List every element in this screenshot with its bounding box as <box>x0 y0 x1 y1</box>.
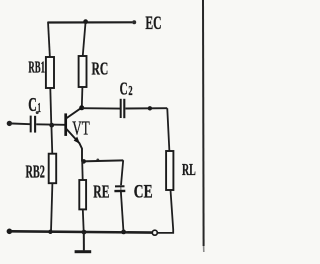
ground <box>75 250 92 253</box>
wire: input to C1 <box>12 123 30 126</box>
wire: top rail to RC <box>83 22 86 57</box>
svg-text:RE: RE <box>93 181 109 201</box>
junction RB2 / rail <box>48 230 52 234</box>
wire: RB2 to ground rail <box>51 183 52 231</box>
svg-text:CE: CE <box>134 181 153 202</box>
wire: emitter wire down to CE <box>121 160 123 185</box>
transistor VT base bar <box>64 113 67 135</box>
wire: output rail down to RL <box>167 108 169 151</box>
svg-text:RB1: RB1 <box>28 58 45 77</box>
junction collector node <box>79 105 84 110</box>
wire: top rail to RB1 <box>48 22 50 58</box>
terminal input ground circle <box>7 229 13 235</box>
resistor RE <box>79 180 86 209</box>
capacitor C1 <box>30 116 32 133</box>
wire: RB1 to base node <box>50 88 51 125</box>
junction top rail / RC <box>83 19 88 24</box>
junction RE-ground / rail <box>82 230 87 235</box>
terminal output circle <box>152 230 157 235</box>
terminal input <box>7 121 12 126</box>
page border right <box>202 0 205 246</box>
svg-text:C: C <box>120 78 128 98</box>
wire: emitter node to RE <box>81 162 84 181</box>
wire: C1 to base <box>36 123 65 126</box>
wire: base node to RB2 <box>50 125 53 154</box>
ink blotch on emitter wire <box>96 159 99 162</box>
wire: collector node to C2 <box>82 107 120 109</box>
junction output node <box>148 106 152 110</box>
wire: RC to collector node <box>81 87 84 108</box>
junction emitter node <box>81 159 86 164</box>
capacitor C2 <box>120 99 122 118</box>
terminal EC circle <box>132 20 136 24</box>
svg-text:RL: RL <box>182 160 196 179</box>
svg-text:VT: VT <box>72 118 89 140</box>
transistor VT emitter lead with arrow <box>66 129 82 162</box>
svg-text:2: 2 <box>128 84 132 99</box>
svg-text:1: 1 <box>38 100 42 115</box>
wire: top rail EC <box>48 21 132 23</box>
svg-text:C: C <box>28 94 37 116</box>
resistor RB1 <box>46 57 54 88</box>
resistor RL <box>166 151 173 190</box>
ink blotch at C1 plate top <box>36 111 39 114</box>
resistor RB2 <box>49 154 57 184</box>
transistor VT collector lead <box>66 108 81 119</box>
capacitor CE <box>120 186 122 191</box>
wire: ground stub <box>83 232 85 250</box>
junction CE / rail <box>121 230 126 235</box>
resistor RC <box>79 56 87 87</box>
junction node base divider <box>49 123 54 128</box>
wire: C2 to RL branch <box>125 107 167 109</box>
wire: CE to rail <box>121 192 124 232</box>
svg-text:EC: EC <box>145 13 161 34</box>
svg-text:RB2: RB2 <box>26 162 45 182</box>
svg-text:RC: RC <box>92 58 109 78</box>
wire: emitter node horizontal <box>82 160 123 161</box>
wire: RE to rail <box>82 209 85 232</box>
wire: RL to bottom right corner <box>158 190 174 233</box>
wire: bottom ground rail <box>12 231 152 232</box>
